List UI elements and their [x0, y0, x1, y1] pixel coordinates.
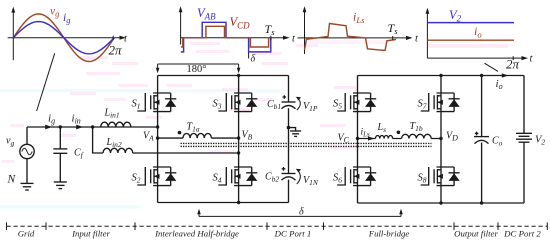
- wire Lin2 branch: [93, 127, 104, 153]
- plot4 line io: [427, 39, 514, 41]
- input wire vg to leg A: [27, 126, 158, 128]
- transformer winding T1a: [158, 122, 239, 139]
- inductor Ls: [376, 122, 393, 139]
- svg-text:δ: δ: [251, 54, 256, 65]
- waveform plot 3 (iLs): [298, 6, 420, 54]
- svg-text:Full-bridge: Full-bridge: [368, 229, 410, 239]
- wire leg D: [440, 76, 442, 204]
- node Co bottom: [480, 201, 483, 204]
- plot3 x-axis: [298, 37, 409, 39]
- wire leg A: [157, 76, 159, 203]
- delta phase bracket: [197, 207, 403, 218]
- current arrow ig: [45, 125, 52, 130]
- svg-text:Input filter: Input filter: [71, 229, 110, 239]
- plot2 x-axis: [181, 37, 285, 39]
- waveform plot 2 (VAB / VCD): [179, 6, 296, 65]
- node T1a at leg B: [237, 136, 240, 139]
- svg-text:N: N: [7, 174, 17, 186]
- transistor S6: [337, 167, 376, 186]
- node VC: [356, 137, 359, 140]
- plot1 x-axis: [8, 37, 122, 39]
- voltage arrow V1N: [296, 169, 319, 187]
- ground at dc link mid: [289, 128, 302, 137]
- plot2 trace VCD dark red: [181, 26, 269, 47]
- plot3 y-axis: [304, 10, 306, 54]
- capacitor Cb2: [265, 167, 296, 184]
- callout line plot4 to output wire: [485, 63, 499, 71]
- current arrow iin: [76, 125, 83, 130]
- inductor Lin2: [103, 137, 133, 153]
- full-bridge ac wire: [358, 138, 442, 140]
- ground under Cf: [54, 182, 67, 189]
- wire leg B: [238, 76, 240, 203]
- node input split junction: [91, 125, 94, 128]
- plot2 delta tick: [248, 53, 250, 59]
- current arrow io: [502, 73, 509, 77]
- capacitor Cf: [53, 127, 83, 182]
- svg-text:Output filter: Output filter: [454, 229, 498, 239]
- 180 degree phase bracket: [156, 64, 241, 75]
- waveform plot 1 (grid voltage/current): [8, 6, 128, 62]
- full-bridge top rail: [358, 75, 525, 77]
- node top rail leg B: [237, 74, 240, 77]
- transistor S8: [421, 167, 460, 186]
- callout line plot1 to grid wire: [37, 53, 55, 111]
- svg-text:Interleaved Half-bridge: Interleaved Half-bridge: [154, 229, 239, 239]
- plot2 y-axis: [180, 10, 182, 45]
- node Cf junction: [59, 125, 62, 128]
- ground under vg: [21, 183, 34, 190]
- node Lin1 at leg A: [156, 125, 159, 128]
- transistor S5: [337, 93, 376, 112]
- output cap branch: [481, 76, 483, 204]
- plot4 y-axis: [426, 12, 428, 59]
- svg-text:180°: 180°: [187, 64, 207, 75]
- section ticks: [7, 222, 548, 230]
- inductor Lin1: [101, 108, 131, 128]
- wire leg C: [357, 76, 359, 204]
- svg-text:2π: 2π: [109, 43, 123, 58]
- capacitor Co: [474, 132, 503, 148]
- transformer core: [181, 143, 432, 146]
- node bottom rail leg B: [237, 201, 240, 204]
- capacitor Cb1: [267, 95, 296, 111]
- plot1 tick 2pi: [112, 36, 114, 40]
- transistor S3: [218, 93, 257, 112]
- plot1 y-axis: [12, 11, 14, 61]
- svg-text:δ: δ: [299, 207, 304, 218]
- transistor S7: [421, 93, 460, 112]
- plot4 tick 2pi: [512, 56, 514, 60]
- node T1a at leg A: [156, 136, 159, 139]
- plot3 tick Ts: [392, 36, 394, 40]
- node dc link mid: [287, 126, 291, 130]
- node Lin2 at leg B: [237, 151, 240, 154]
- plot4 line V2: [427, 22, 514, 24]
- svg-text:2π: 2π: [506, 57, 520, 72]
- wire Lin2 to leg B: [133, 152, 239, 154]
- plot1 curve ig: [13, 22, 114, 54]
- plot4 x-axis: [427, 57, 523, 59]
- node top rail leg D: [439, 74, 442, 77]
- svg-text:Grid: Grid: [18, 229, 35, 239]
- node Co top: [480, 74, 483, 77]
- transformer winding T1b: [397, 121, 432, 139]
- svg-text:DC Port 2: DC Port 2: [503, 229, 541, 239]
- voltage arrow V1P: [296, 97, 318, 113]
- plot3 trace iLs: [305, 24, 397, 51]
- plot2 tick Ts: [270, 36, 272, 41]
- half-bridge bottom rail: [158, 202, 289, 204]
- half-bridge top rail: [158, 75, 289, 77]
- battery V2: [516, 76, 545, 204]
- current arrow iLs: [368, 136, 375, 140]
- plot1 curve vg: [13, 14, 114, 62]
- transistor S1: [137, 93, 176, 112]
- node bottom rail leg D: [439, 201, 442, 204]
- ac source vg: [6, 127, 34, 183]
- section divider band: [7, 225, 548, 227]
- dc link branch Cb: [288, 76, 290, 203]
- node VD: [439, 137, 442, 140]
- waveform plot 4 (V2 / io): [426, 8, 534, 72]
- plot2 trace VAB blue: [181, 22, 271, 52]
- svg-text:DC Port 1: DC Port 1: [274, 229, 312, 239]
- transistor S4: [218, 167, 257, 186]
- transistor S2: [137, 167, 176, 186]
- full-bridge bottom rail: [358, 202, 525, 204]
